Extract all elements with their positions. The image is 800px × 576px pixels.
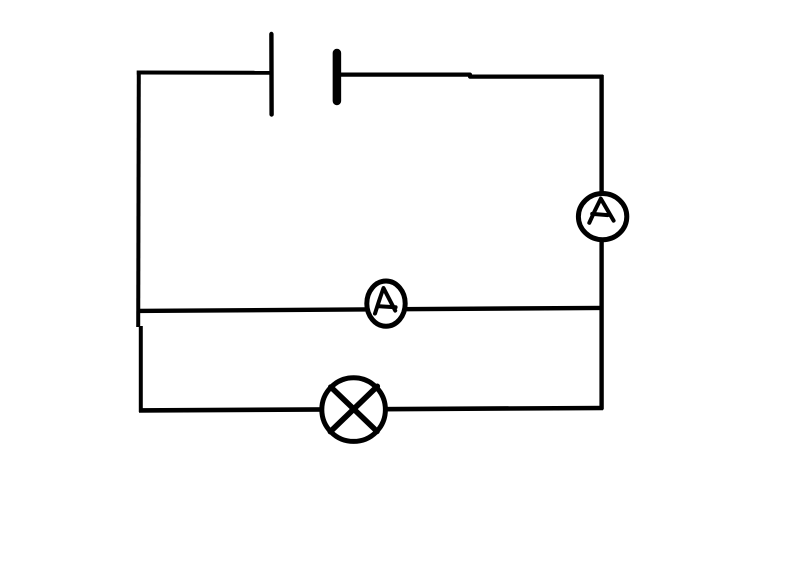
battery cell B1: long plate (positive terminal) — [269, 34, 274, 115]
ammeter A1 label "A" — [589, 199, 613, 223]
ammeter A2 label "A" — [375, 288, 396, 314]
wire: middle horizontal branch — [137, 308, 603, 311]
ammeter A1 body (right branch): circle — [578, 194, 626, 240]
wire: top-right horizontal from battery to right corner (slight jog) — [338, 75, 603, 77]
wire: left vertical lower segment (slight hand-drawn jog at middle junction) — [139, 326, 143, 412]
lamp L1 cross stroke (top-left to bottom-right) — [331, 387, 377, 431]
wire: left vertical upper segment — [136, 71, 141, 328]
wire: bottom horizontal — [139, 408, 603, 410]
ammeter A2 body (middle branch): circle — [367, 281, 405, 326]
lamp L1 body: circle — [322, 378, 386, 442]
wire: top-left horizontal from left corner to battery — [137, 71, 270, 75]
lamp L1 cross stroke (top-right to bottom-left) — [330, 386, 377, 431]
wire: right vertical from top corner to bottom corner — [599, 75, 603, 410]
battery cell B1: short thick plate (negative terminal) — [333, 53, 342, 101]
